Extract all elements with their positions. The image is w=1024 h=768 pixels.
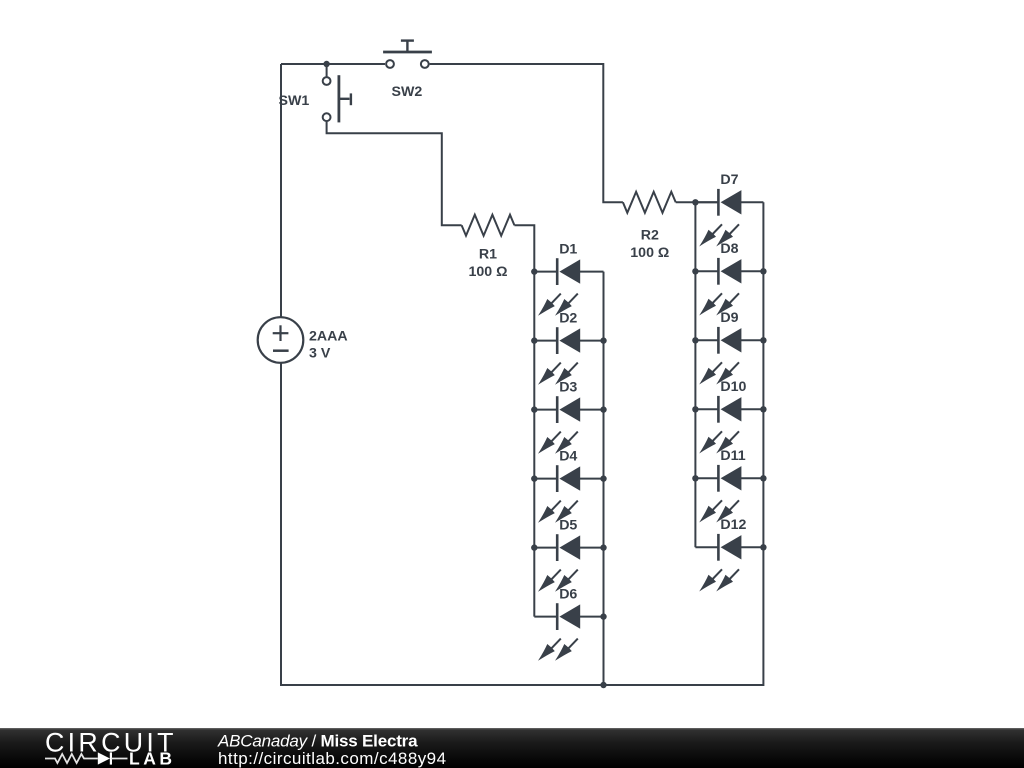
svg-text:D2: D2 — [559, 310, 577, 326]
svg-text:100 Ω: 100 Ω — [630, 245, 669, 261]
svg-text:D5: D5 — [559, 517, 577, 533]
svg-text:D10: D10 — [720, 379, 746, 395]
svg-text:D12: D12 — [720, 517, 746, 533]
svg-text:D4: D4 — [559, 448, 577, 464]
svg-text:D11: D11 — [720, 448, 745, 464]
svg-text:D1: D1 — [559, 241, 577, 257]
svg-text:SW1: SW1 — [279, 93, 310, 109]
svg-text:R1: R1 — [479, 247, 497, 263]
svg-text:LAB: LAB — [129, 749, 172, 768]
svg-text:D6: D6 — [559, 586, 577, 602]
svg-text:http://circuitlab.com/c488y94: http://circuitlab.com/c488y94 — [218, 749, 447, 768]
svg-text:ABCanaday / Miss Electra: ABCanaday / Miss Electra — [217, 731, 418, 750]
svg-text:D7: D7 — [720, 172, 738, 188]
svg-text:D8: D8 — [720, 241, 738, 257]
svg-text:D9: D9 — [720, 310, 738, 326]
svg-text:SW2: SW2 — [392, 84, 423, 100]
svg-text:3 V: 3 V — [309, 346, 331, 362]
svg-text:D3: D3 — [559, 379, 577, 395]
svg-text:2AAA: 2AAA — [309, 329, 348, 345]
svg-text:R2: R2 — [641, 228, 659, 244]
svg-text:100 Ω: 100 Ω — [469, 264, 508, 280]
